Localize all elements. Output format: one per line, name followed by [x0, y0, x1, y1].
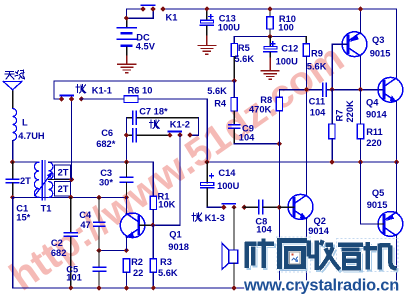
svg-text:C6: C6 — [101, 128, 113, 138]
node bus C5 — [96, 285, 101, 290]
node Q3 emitter rail — [358, 6, 363, 11]
svg-text:4.7UH: 4.7UH — [18, 131, 45, 141]
svg-text:100U: 100U — [276, 57, 299, 67]
svg-text:104: 104 — [310, 108, 326, 118]
svg-text:100U: 100U — [218, 22, 241, 32]
svg-text:C12: C12 — [281, 43, 298, 53]
antenna symbol — [3, 81, 22, 91]
resistor R10 100 — [267, 9, 296, 37]
glyph 矿 — [245, 241, 274, 268]
svg-text:R11: R11 — [366, 127, 383, 137]
svg-text:104: 104 — [256, 225, 272, 235]
wire Q3 collector down — [360, 56, 362, 90]
svg-text:Q3: Q3 — [372, 35, 384, 45]
node bus C2 — [68, 285, 73, 290]
resistor R6 10 — [81, 85, 207, 102]
svg-text:220K: 220K — [345, 100, 355, 123]
svg-text:R7: R7 — [335, 110, 345, 122]
wire top rail — [163, 9, 396, 78]
svg-text:9018: 9018 — [168, 242, 189, 252]
node antenna/C1 — [10, 159, 15, 164]
svg-text:5.6K: 5.6K — [158, 268, 178, 278]
wire Q1 collector — [125, 197, 127, 213]
svg-text:Q4: Q4 — [366, 97, 379, 107]
svg-text:K1-2: K1-2 — [170, 119, 190, 129]
transistor Q2 9014 — [279, 194, 329, 236]
wire mid supply bus — [234, 36, 306, 38]
node bus R3 — [151, 285, 156, 290]
icon placeholder inside 石 — [290, 252, 300, 264]
node C4/C5 — [96, 248, 101, 253]
svg-text:C3: C3 — [100, 168, 112, 178]
svg-text:Q1: Q1 — [169, 229, 181, 239]
svg-text:K1-1: K1-1 — [92, 86, 112, 96]
wire Q2 emitter down — [306, 219, 308, 288]
label box 2T lower — [55, 182, 71, 196]
watermark 51dz.com — [2, 36, 352, 298]
node center tap — [69, 177, 74, 182]
capacitor C2 682 — [51, 197, 77, 288]
svg-text:2T: 2T — [58, 184, 69, 194]
capacitor C14 100U — [201, 162, 240, 207]
svg-text:C2: C2 — [51, 238, 63, 248]
speaker Y1 — [222, 207, 238, 288]
resistor R8 470K — [249, 90, 283, 144]
svg-text:9014: 9014 — [366, 109, 388, 119]
svg-text:L: L — [22, 117, 28, 127]
svg-text:Q5: Q5 — [372, 188, 384, 198]
node Q1 base — [150, 223, 155, 228]
svg-text:5.6K: 5.6K — [234, 54, 254, 64]
svg-text:R2: R2 — [131, 257, 143, 267]
svg-text:682: 682 — [51, 248, 67, 258]
battery BT DC4.5V — [117, 18, 155, 56]
node tank/C3 — [124, 159, 129, 164]
wire C7 to K1-2 dot3 — [190, 118, 199, 135]
wire Q5 emitter up — [395, 162, 397, 212]
wire Q3 emitter to rail — [360, 9, 362, 33]
wire base line y89.6 — [279, 89, 322, 91]
svg-text:682*: 682* — [96, 139, 116, 149]
wire R6 down to supply line — [206, 99, 208, 162]
resistor R4 5.6K — [207, 81, 237, 124]
收 glyph K1-1 — [76, 85, 86, 94]
switch K1-3 — [222, 203, 235, 205]
node C6 left — [124, 133, 129, 138]
resistor R11 220 — [357, 90, 382, 162]
node bus speaker — [231, 285, 236, 290]
transistor Q4 9014 — [366, 77, 403, 119]
ground (battery) — [118, 56, 136, 73]
wire bottom bus — [13, 287, 397, 289]
node R10 bottom — [267, 34, 272, 39]
resistor R5 5.6K — [231, 37, 254, 81]
glyph 石 — [277, 238, 307, 269]
ground (C12) — [261, 58, 279, 79]
svg-text:15*: 15* — [16, 213, 30, 223]
wire R11 node to Q5 base — [361, 162, 378, 224]
transistor Q3 9015 — [341, 32, 390, 59]
wire tank bottom rail — [13, 196, 127, 198]
resistor R9 5.6K — [303, 37, 326, 72]
transformer T1 secondary upper winding — [49, 162, 53, 179]
capacitor C12 100U — [264, 37, 298, 67]
svg-text:9014: 9014 — [308, 226, 330, 236]
resistor R7 220K (vertical labels) — [329, 90, 355, 162]
wire antenna stem — [12, 91, 14, 109]
node base line/R7 — [329, 87, 334, 92]
svg-text:30*: 30* — [99, 178, 113, 188]
node rail/C4 — [96, 195, 101, 200]
resistor R2 22 — [123, 257, 143, 288]
wire R9 to Q2 collector — [306, 56, 308, 194]
svg-text:22: 22 — [133, 268, 143, 278]
node R8/C9 — [277, 141, 282, 146]
resistor R1 10K — [150, 162, 175, 225]
capacitor C7 18* — [126, 107, 198, 125]
svg-text:Q2: Q2 — [314, 216, 326, 226]
svg-text:2T: 2T — [58, 167, 69, 177]
node base line/R9 — [304, 87, 309, 92]
switch K1-1 — [60, 95, 73, 97]
logo 矿石收音机 white halo — [245, 238, 396, 270]
capacitor C3 30* — [99, 162, 133, 197]
node Q1e/R2 — [124, 248, 129, 253]
svg-text:K1: K1 — [166, 13, 178, 23]
glyph 机 — [364, 242, 397, 269]
svg-text:C4: C4 — [79, 210, 92, 220]
svg-text:R3: R3 — [160, 257, 172, 267]
logo selection marks — [277, 237, 311, 272]
inductor L 4.7UH — [13, 109, 17, 141]
svg-text:R4: R4 — [214, 98, 227, 108]
capacitor C5 101 — [66, 250, 105, 288]
wire tank top line — [49, 161, 154, 163]
wire Q1 emitter — [125, 237, 127, 250]
transistor Q1 9018 (mirrored) — [120, 213, 189, 252]
node R10 top — [267, 6, 272, 11]
transformer T1 secondary lower winding — [49, 182, 53, 198]
T1 tuning arrow — [35, 175, 51, 196]
glyph 音 — [338, 245, 363, 268]
node battery junction — [124, 16, 129, 21]
svg-text:R9: R9 — [311, 48, 323, 58]
antenna 天线 label (drawn glyphs) — [5, 70, 25, 79]
wire R8 column to Q2 base and bus — [278, 144, 280, 288]
node rail/C2 — [68, 195, 73, 200]
wire center tap to K1-1 — [70, 99, 72, 180]
ground (C13) — [198, 36, 216, 54]
icon caption marks — [282, 269, 297, 271]
svg-text:5.6K: 5.6K — [307, 61, 327, 71]
label box 2T upper — [55, 165, 71, 179]
wire antenna node to T1 primary — [13, 161, 39, 163]
svg-text:K1-3: K1-3 — [205, 213, 225, 223]
wire C14 to K1-3 — [207, 206, 224, 208]
svg-text:100U: 100U — [217, 181, 240, 191]
node bus R2 — [124, 285, 129, 290]
svg-text:5.6K: 5.6K — [207, 86, 227, 96]
wire T1 center tap — [49, 179, 72, 181]
node R6/C14 — [204, 159, 209, 164]
svg-text:10K: 10K — [158, 199, 175, 209]
svg-text:47: 47 — [80, 220, 90, 230]
node supply/Q4e/Q5e — [394, 159, 399, 164]
svg-text:C11: C11 — [309, 96, 326, 106]
wire left edge down to bottom bus — [12, 197, 14, 288]
node R5/R4 junction — [232, 78, 237, 83]
node supply/R7 — [329, 159, 334, 164]
capacitor C9 104 — [229, 123, 255, 144]
node C1 bottom — [10, 195, 15, 200]
svg-text:R8: R8 — [260, 95, 272, 105]
resistor R3 5.6K — [150, 225, 178, 288]
svg-text:T1: T1 — [41, 203, 52, 213]
wire battery to switch loop — [126, 9, 153, 18]
logo 矿石收音机 main dark strokes — [245, 238, 396, 270]
svg-text:220: 220 — [366, 138, 382, 148]
switch K1 — [141, 4, 154, 6]
node Q2 base — [277, 205, 282, 210]
svg-text:R6 10: R6 10 — [128, 85, 153, 95]
svg-text:101: 101 — [66, 273, 82, 283]
wire C4/Q1e link — [99, 249, 126, 251]
svg-text:100: 100 — [278, 23, 294, 33]
svg-text:2T: 2T — [20, 176, 31, 186]
glyph 收 — [309, 240, 340, 270]
node C13 top — [204, 6, 209, 11]
wire K1-2 dot2 to Q1 base — [153, 135, 180, 225]
capacitor C13 — [200, 9, 240, 36]
wire Q4 emitter down — [395, 102, 397, 162]
wire C6/C7 left column — [125, 118, 127, 162]
svg-text:R5: R5 — [238, 43, 250, 53]
svg-text:9015: 9015 — [367, 200, 388, 210]
svg-text:www.crystalradio.cn: www.crystalradio.cn — [243, 277, 399, 295]
transistor Q5 9015 — [367, 188, 403, 236]
capacitor C1 15* — [6, 162, 30, 223]
收 glyph K1-3 — [192, 213, 202, 222]
switch K1-2 — [169, 131, 182, 133]
transformer T1 primary winding — [34, 162, 38, 197]
capacitor C4 47 — [79, 197, 104, 250]
svg-text:470K: 470K — [249, 104, 272, 114]
K1 terminal dots — [140, 6, 166, 11]
capacitor C8 104 — [244, 200, 279, 234]
wire L to C1 node — [12, 141, 14, 163]
node rail/C3/Q1c — [124, 195, 129, 200]
node base line/R11/Q4 — [358, 87, 363, 92]
svg-text:C14: C14 — [218, 168, 236, 178]
svg-text:104: 104 — [239, 133, 255, 143]
node supply/R11 — [358, 159, 363, 164]
wire right supply line y162 — [207, 161, 396, 163]
svg-text:C7 18*: C7 18* — [139, 107, 168, 117]
wire Q3 base — [332, 44, 347, 89]
capacitor C11 104 — [309, 83, 327, 117]
svg-text:9015: 9015 — [370, 49, 391, 59]
logo 矿石收音机 light shadow — [247, 240, 398, 272]
svg-text:4.5V: 4.5V — [136, 42, 156, 52]
wire C9 to R8 column — [234, 143, 279, 145]
wire Q5 collector down — [395, 236, 397, 288]
transformer T1 core — [42, 161, 45, 201]
收 glyph K1-2 — [149, 120, 159, 129]
wire supply rail upper-left — [54, 81, 234, 99]
capacitor C6 682* — [96, 128, 170, 149]
